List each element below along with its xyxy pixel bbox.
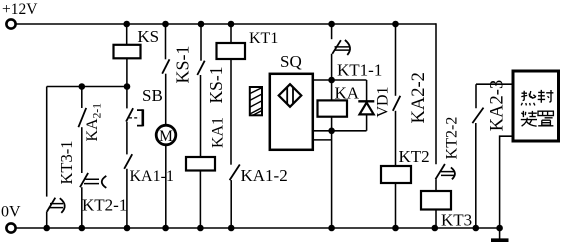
- contact KA2-1: [78, 108, 86, 127]
- contact KA2-2: [393, 96, 401, 111]
- wire KT1-1 branch top: [331, 24, 333, 39]
- svg-text:KT2-2: KT2-2: [444, 117, 461, 160]
- wire KT3-1 branch: [46, 87, 48, 197]
- time contact KT2-1: [80, 173, 106, 188]
- svg-text:KT1-1: KT1-1: [337, 61, 382, 80]
- contact KA1-2: [230, 165, 240, 181]
- wire KT1 branch top: [230, 24, 232, 43]
- node sub-rail SB: [124, 83, 131, 90]
- wire KA1 to 0V: [199, 171, 201, 229]
- ground: [491, 228, 509, 240]
- svg-text:0V: 0V: [1, 204, 21, 221]
- svg-text:KT2: KT2: [399, 147, 430, 166]
- contact KA2-3: [472, 108, 483, 124]
- svg-text:KA1-1: KA1-1: [130, 168, 174, 185]
- wire bottom node to 0V: [331, 131, 333, 228]
- KA2-3 label: [488, 80, 508, 131]
- relay coil KA: [318, 100, 348, 116]
- svg-text:KT3-1: KT3-1: [57, 141, 76, 185]
- wire KT2-2 to KT3 coil: [435, 179, 437, 191]
- svg-text:KA1-2: KA1-2: [241, 166, 288, 185]
- relay coil KS: [114, 45, 141, 59]
- svg-text:KS: KS: [137, 27, 159, 46]
- time contact KT3-1: [47, 198, 65, 213]
- svg-text:KT3: KT3: [441, 211, 472, 230]
- node top rail KT1-1: [328, 21, 335, 28]
- node bottom rail KA1: [197, 225, 204, 232]
- wire KT2 to 0V: [395, 183, 397, 228]
- KA2-2 label: [409, 72, 429, 123]
- node top rail KT1: [228, 21, 235, 28]
- node top rail KS-1a: [162, 21, 169, 28]
- wire motor to 0V: [165, 145, 167, 228]
- wire KS-1 first branch top: [165, 24, 167, 59]
- node bottom rail KA1-1: [124, 225, 131, 232]
- wire KT2-1 to 0V: [81, 187, 83, 228]
- wire KT1-1 to node: [331, 54, 333, 80]
- proximity switch SQ box: [270, 74, 313, 150]
- char 置: [538, 111, 553, 126]
- wire KA1-2 to 0V: [230, 180, 232, 228]
- KT3-1 label: [57, 141, 76, 185]
- relay coil KT3: [421, 191, 451, 210]
- wire KA1-1 to 0V: [126, 169, 128, 228]
- node KA bottom: [328, 128, 335, 135]
- time contact KT2-2: [436, 164, 455, 179]
- svg-text:KA2-2: KA2-2: [409, 72, 429, 123]
- KA1 label: [210, 117, 227, 148]
- bottom rail 0V: [16, 227, 501, 229]
- relay coil KA1: [186, 157, 215, 171]
- char 装: [521, 111, 537, 126]
- svg-text:KA1: KA1: [210, 117, 227, 148]
- wire KA coil to bottom node: [331, 117, 333, 131]
- KS-1 first label: [173, 45, 193, 83]
- node bottom rail KT3: [432, 225, 439, 232]
- svg-text:KS-1: KS-1: [173, 45, 193, 83]
- node top rail KS: [123, 21, 130, 28]
- diode VD1: [358, 80, 374, 131]
- pushbutton SB: [126, 108, 143, 126]
- VD1 label: [374, 86, 391, 117]
- sub-rail node line: [47, 86, 128, 88]
- svg-text:M: M: [159, 128, 173, 145]
- wire node to KA coil: [331, 80, 333, 100]
- wire KS-1 to motor: [165, 74, 167, 127]
- svg-text:VD1: VD1: [374, 86, 391, 117]
- relay coil KT2: [381, 166, 411, 183]
- node bottom rail KA1-2: [228, 225, 235, 232]
- wire KT3 to 0V: [435, 210, 437, 229]
- heat sealing device box: [513, 71, 559, 141]
- contact KS-1 (first): [162, 59, 169, 73]
- node bottom rail KT2: [392, 225, 399, 232]
- wire KA2-3 to 0V: [475, 123, 477, 228]
- contact KS-1 (second): [197, 61, 204, 75]
- wire SB to KA1-1: [126, 122, 128, 155]
- svg-text:KA2-3: KA2-3: [488, 80, 508, 131]
- relay coil KT1: [217, 43, 246, 59]
- KS-1 second label: [206, 67, 226, 104]
- wire KA2-2 branch top: [395, 24, 397, 96]
- wire KA2-1 branch: [81, 87, 83, 109]
- node top rail KA2-2: [392, 21, 399, 28]
- contact KA1-1: [124, 154, 132, 169]
- top rail +12V: [16, 23, 437, 25]
- actuator plate (hatched): [250, 87, 262, 115]
- wire KS coil to sub-rail: [126, 58, 128, 86]
- svg-text:KT2-1: KT2-1: [82, 196, 127, 215]
- node top rail KS-1b: [198, 21, 205, 28]
- char 封: [538, 90, 554, 103]
- wire KS-1 second branch top: [200, 24, 202, 61]
- node bottom rail KA: [328, 225, 335, 232]
- wire KS branch top: [126, 24, 128, 45]
- wire SQ lower pin: [312, 139, 332, 141]
- 0V terminal: [6, 223, 15, 232]
- wire heat-sealer top feed: [476, 84, 513, 108]
- motor M: [156, 125, 176, 145]
- +12V terminal: [6, 19, 15, 28]
- svg-text:KA2-1: KA2-1: [84, 103, 104, 142]
- wire sub-rail to SB: [126, 87, 128, 109]
- heat-seal text 热封装置: [521, 90, 554, 126]
- node top wire: [312, 79, 367, 81]
- wire KT1 to KA1-2: [230, 59, 232, 165]
- svg-text:KS-1: KS-1: [206, 67, 226, 104]
- wire KA2-2 to KT2 coil: [395, 111, 397, 166]
- svg-text:SQ: SQ: [280, 52, 302, 71]
- node bottom rail ground: [496, 225, 503, 232]
- KT2-2 label: [444, 117, 461, 160]
- svg-text:SB: SB: [142, 86, 163, 105]
- char 热: [521, 91, 535, 106]
- wire KS-1 to KA1 coil: [200, 75, 202, 157]
- time contact KT1-1: [332, 40, 350, 55]
- node sub-rail KA2-1: [79, 83, 86, 90]
- node bottom rail KT2-1: [79, 225, 86, 232]
- KA2-1 label: [84, 103, 104, 142]
- node bottom rail KT3-1: [43, 225, 50, 232]
- wire KT3-1 to 0V: [46, 212, 48, 229]
- wire KA2-1 to KT2-1: [81, 127, 83, 173]
- node KA top: [328, 77, 335, 84]
- node bottom wire: [312, 130, 367, 132]
- node bottom rail KA2-3: [473, 225, 480, 232]
- wire heat-sealer bottom feed: [500, 136, 513, 228]
- wire KT2-2 branch (from rail corner): [435, 23, 437, 164]
- svg-text:+12V: +12V: [2, 1, 38, 18]
- svg-text:KT1: KT1: [249, 30, 278, 47]
- SQ sensor diamond: [279, 84, 302, 107]
- node bottom rail M: [162, 225, 169, 232]
